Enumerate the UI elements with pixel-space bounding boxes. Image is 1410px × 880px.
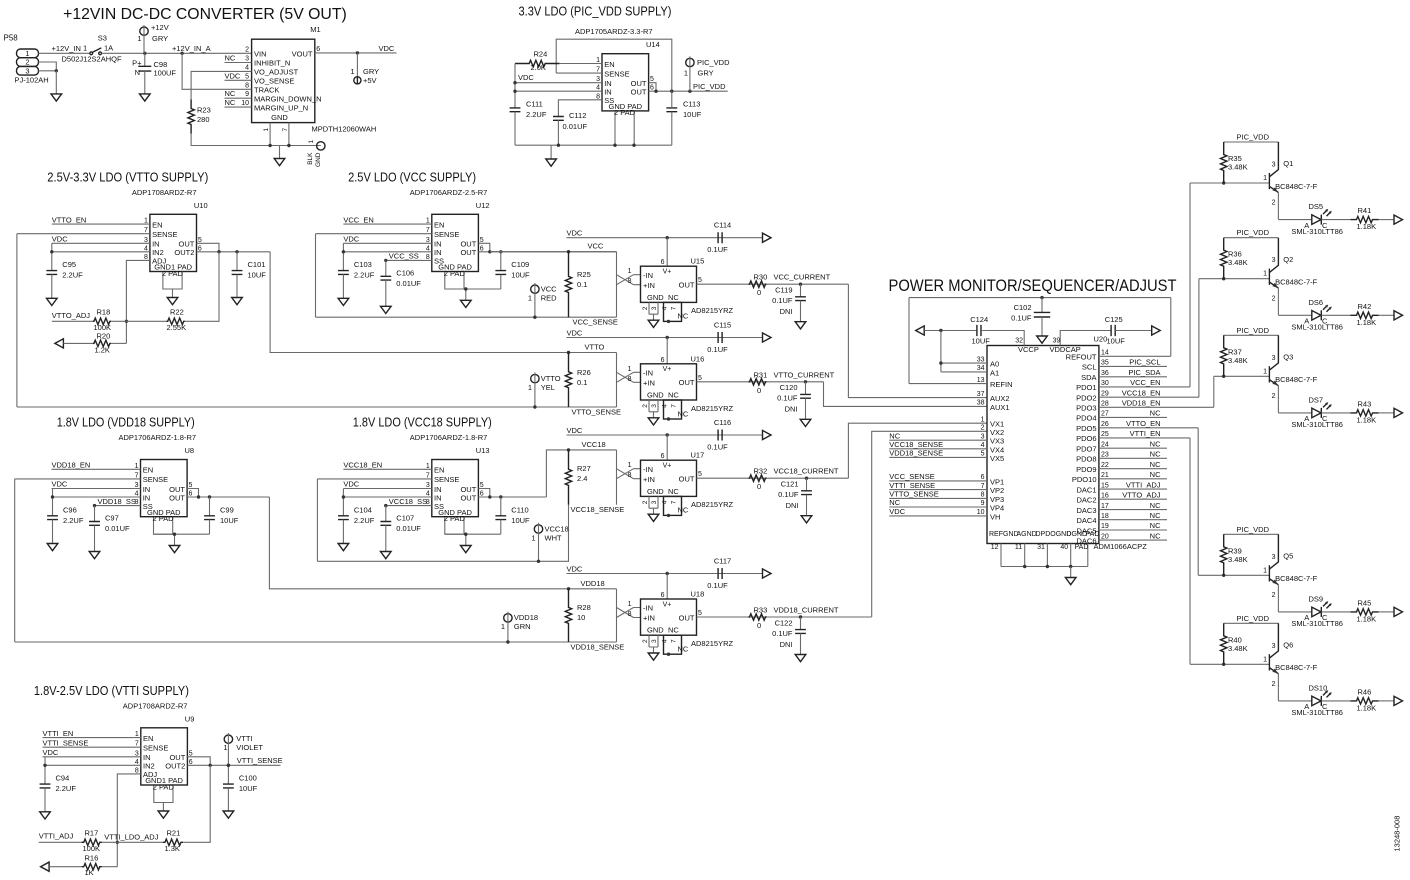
- svg-text:1.2K: 1.2K: [95, 345, 110, 354]
- wire gnd stub U15: [653, 314, 655, 320]
- wire OUT pin5 tie U12: [478, 243, 489, 252]
- junction R39 base Q5: [1222, 574, 1225, 577]
- svg-text:SENSE: SENSE: [434, 475, 459, 484]
- junction tie U12: [488, 250, 491, 253]
- svg-text:9: 9: [981, 500, 985, 507]
- LDO U9 (ADP1708ARDZ-R7) box: [141, 728, 188, 785]
- wire C124 to VCCP: [981, 331, 1024, 346]
- wire NC from PDO9: [1099, 468, 1167, 470]
- capacitor C95: [46, 271, 57, 275]
- svg-text:4: 4: [981, 442, 985, 449]
- wire V+ stub U18: [666, 574, 668, 600]
- svg-text:N: N: [135, 68, 140, 77]
- junction R27 top: [567, 448, 570, 451]
- wire VCC_SS: [386, 259, 432, 261]
- svg-text:P+: P+: [132, 58, 142, 67]
- wire R23 bottom to GND rail: [191, 134, 321, 146]
- ground C122: [795, 655, 806, 662]
- svg-text:4: 4: [662, 500, 669, 504]
- wire VTTO_ADJ to R18: [52, 320, 93, 322]
- svg-text:10UF: 10UF: [220, 516, 239, 525]
- junction +5V probe: [356, 51, 359, 54]
- wire U20 pin 12 stub: [1000, 544, 1002, 567]
- svg-text:PDO8: PDO8: [1076, 455, 1096, 464]
- off-page connector (VDC U17): [763, 430, 772, 439]
- resistor R20: [93, 340, 111, 346]
- wire OUT U15: [697, 283, 849, 285]
- svg-text:DNI: DNI: [780, 307, 793, 316]
- wire sense right edge U16: [616, 353, 618, 408]
- ground M1: [274, 159, 285, 166]
- svg-text:AD8215YRZ: AD8215YRZ: [691, 639, 734, 648]
- wire C120 drop: [805, 382, 807, 395]
- wire P58 pin3 to node: [39, 70, 57, 72]
- ground pad U8: [169, 546, 180, 553]
- svg-text:18: 18: [1101, 513, 1109, 520]
- svg-text:13: 13: [977, 377, 985, 384]
- wire VCC18 sense return rail: [317, 505, 568, 562]
- svg-text:VP1: VP1: [990, 477, 1004, 486]
- svg-text:ADM1066ACPZ: ADM1066ACPZ: [1094, 542, 1148, 551]
- junction P58 pins 2-3: [55, 69, 58, 72]
- wire C101 to ground: [236, 274, 238, 297]
- wire V+ stub U17: [666, 435, 668, 460]
- svg-text:10UF: 10UF: [1107, 337, 1126, 346]
- svg-text:6: 6: [316, 46, 320, 53]
- wire LED to R42: [1321, 314, 1350, 316]
- wire SENSE U14: [556, 72, 602, 74]
- off-page connector (Q1 output): [1394, 215, 1403, 224]
- junction R40 base Q6: [1222, 663, 1225, 666]
- LDO U10 (ADP1708ARDZ-R7) box: [150, 214, 197, 271]
- svg-text:VCC_EN: VCC_EN: [343, 215, 373, 224]
- wire M1 pin 10 stub: [225, 106, 252, 108]
- svg-text:R16: R16: [85, 853, 99, 862]
- svg-text:NC: NC: [678, 409, 689, 418]
- svg-text:15: 15: [1101, 482, 1109, 489]
- svg-text:R33: R33: [754, 606, 768, 615]
- ground C102: [1037, 336, 1048, 343]
- resistor R32: [749, 475, 767, 481]
- svg-text:C106: C106: [396, 268, 414, 277]
- svg-text:37: 37: [977, 391, 985, 398]
- wire VDD18_SENSE to VX5: [889, 456, 987, 458]
- junction R35 base Q1: [1222, 181, 1225, 184]
- svg-text:MARGIN_DOWN_N: MARGIN_DOWN_N: [254, 94, 322, 103]
- wire VDD18_EN from PDO3: [1099, 406, 1214, 408]
- capacitor C119 (DNI): [795, 297, 806, 301]
- svg-text:U9: U9: [185, 714, 195, 723]
- svg-text:R27: R27: [577, 464, 591, 473]
- wire gnd stub pad U13: [465, 534, 467, 545]
- svg-text:MARGIN_UP_N: MARGIN_UP_N: [254, 103, 308, 112]
- svg-text:AD8215YRZ: AD8215YRZ: [691, 404, 734, 413]
- svg-text:V+: V+: [663, 463, 672, 470]
- svg-text:EN: EN: [143, 466, 153, 475]
- svg-text:VCC18_EN: VCC18_EN: [343, 461, 382, 470]
- capacitor C124: [977, 325, 981, 336]
- svg-text:33: 33: [977, 356, 985, 363]
- svg-text:REFIN: REFIN: [990, 380, 1013, 389]
- wire VTTO_ADJ from DAC2: [1099, 498, 1167, 500]
- svg-text:0.01UF: 0.01UF: [396, 524, 421, 533]
- wire R43 to connector: [1379, 412, 1395, 414]
- wire IN2 U13: [343, 496, 431, 498]
- svg-text:VO_SENSE: VO_SENSE: [254, 77, 294, 86]
- svg-text:10UF: 10UF: [248, 271, 267, 280]
- svg-text:6: 6: [661, 453, 665, 460]
- bottom ground rail U14: [515, 144, 672, 146]
- wire PIC_VDD rail Q5: [1224, 533, 1279, 535]
- svg-text:U15: U15: [691, 257, 705, 266]
- svg-text:0.01UF: 0.01UF: [105, 524, 130, 533]
- svg-text:38: 38: [977, 400, 985, 407]
- junction gnd bus 11: [1023, 565, 1026, 568]
- svg-text:GND: GND: [647, 391, 664, 400]
- off-page connector (VTTI_ADJ R16): [41, 862, 50, 871]
- LDO U14 (ADP1705ARDZ-3.3-R7) box: [602, 54, 649, 111]
- wire NC from DAC3: [1099, 509, 1167, 511]
- junction NC U17: [667, 514, 670, 517]
- wire C100 drop: [227, 765, 229, 784]
- wire R41 to connector: [1379, 219, 1395, 221]
- wire C111 to rail: [514, 112, 516, 146]
- wire U20 PAD stub: [1087, 544, 1089, 567]
- svg-text:R42: R42: [1358, 302, 1372, 311]
- svg-text:C96: C96: [63, 505, 77, 514]
- wire U12 SENSE riser: [315, 234, 317, 318]
- svg-text:3: 3: [651, 306, 658, 310]
- wire IN2 U8: [53, 496, 141, 498]
- svg-text:4: 4: [245, 64, 249, 71]
- svg-text:PDO2: PDO2: [1076, 394, 1096, 403]
- wire emitter to LED DS7: [1278, 412, 1311, 414]
- wire VDC input U8: [52, 488, 141, 490]
- wire C104 to ground: [342, 520, 344, 544]
- svg-text:WHT: WHT: [545, 533, 562, 542]
- wire GND pins U18: [649, 635, 658, 647]
- resistor R31: [749, 379, 767, 385]
- svg-text:0.1UF: 0.1UF: [707, 345, 728, 354]
- junction A0/A1 riser: [939, 329, 942, 332]
- ground P58: [51, 94, 62, 101]
- svg-text:4: 4: [662, 404, 669, 408]
- svg-text:DS10: DS10: [1309, 683, 1328, 692]
- ground U17: [648, 514, 659, 521]
- svg-text:PAD: PAD: [1075, 544, 1089, 551]
- svg-text:OUT2: OUT2: [165, 762, 185, 771]
- svg-text:VDD18_SENSE: VDD18_SENSE: [889, 449, 943, 458]
- svg-text:VDD18_SENSE: VDD18_SENSE: [571, 643, 625, 652]
- svg-text:DNI: DNI: [786, 501, 799, 510]
- svg-text:32: 32: [1015, 338, 1023, 345]
- op-amp U18 (AD8215YRZ) box: [641, 599, 697, 635]
- wire output PIC_VDD: [649, 90, 728, 92]
- wire OUT U17: [697, 477, 849, 479]
- svg-text:VDD18_EN: VDD18_EN: [52, 461, 91, 470]
- wire A1: [941, 371, 987, 373]
- svg-text:3: 3: [245, 56, 249, 63]
- wire C106 drop: [385, 260, 387, 276]
- resistor R39: [1221, 534, 1227, 575]
- svg-text:3: 3: [651, 500, 658, 504]
- svg-text:1: 1: [501, 622, 505, 631]
- svg-text:0: 0: [757, 386, 761, 395]
- svg-text:DNI: DNI: [785, 405, 798, 414]
- op-amp U15 (AD8215YRZ) box: [641, 266, 697, 302]
- svg-text:1: 1: [1263, 567, 1267, 574]
- svg-text:VTTO: VTTO: [585, 343, 605, 352]
- svg-text:NC: NC: [1150, 450, 1161, 459]
- wire VTTI_ADJ to R17: [39, 841, 82, 843]
- wire VTTO_EN from PDO5: [1099, 427, 1198, 429]
- svg-text:6: 6: [981, 474, 985, 481]
- off-page connector (Q6 output): [1394, 696, 1403, 705]
- svg-text:VCC_SENSE: VCC_SENSE: [889, 472, 934, 481]
- svg-text:NC: NC: [668, 391, 679, 400]
- probe GND BLK: [317, 142, 325, 150]
- capacitor C117: [718, 568, 722, 579]
- svg-text:SML-310LTT86: SML-310LTT86: [1291, 619, 1343, 628]
- svg-text:Q3: Q3: [1283, 352, 1293, 361]
- capacitor C109: [495, 271, 506, 275]
- svg-text:VDC: VDC: [52, 235, 68, 244]
- capacitor C98: [138, 53, 151, 94]
- junction C112 gnd: [557, 144, 560, 147]
- capacitor C102: [1034, 298, 1050, 336]
- svg-text:VDC: VDC: [567, 328, 583, 337]
- svg-text:VDC: VDC: [379, 44, 395, 53]
- svg-text:R45: R45: [1358, 598, 1372, 607]
- svg-text:C100: C100: [239, 774, 257, 783]
- ground C100: [223, 811, 234, 818]
- capacitor C96: [47, 516, 58, 520]
- svg-text:R18: R18: [97, 307, 111, 316]
- svg-text:INHIBIT_N: INHIBIT_N: [254, 59, 290, 68]
- capacitor C121 (DNI): [801, 491, 812, 495]
- svg-text:C114: C114: [714, 221, 731, 230]
- wire C112 to rail: [557, 120, 559, 145]
- pad pins of U10: [163, 272, 182, 290]
- svg-text:1.3K: 1.3K: [165, 844, 180, 853]
- wire U20 pin 11 stub: [1024, 544, 1026, 567]
- svg-text:VCC18_CURRENT: VCC18_CURRENT: [774, 467, 839, 476]
- svg-text:VCC_SS: VCC_SS: [389, 252, 419, 261]
- wire C99 to pad bar: [209, 520, 211, 535]
- svg-text:2: 2: [1272, 681, 1276, 688]
- junction ADJ network U10: [125, 320, 128, 323]
- svg-text:7: 7: [282, 128, 289, 132]
- ground U18: [648, 653, 659, 660]
- svg-text:0.1: 0.1: [577, 280, 587, 289]
- wire PIC_SCL from SCL: [1099, 365, 1167, 367]
- probe VCC RED: [531, 283, 539, 317]
- svg-text:R25: R25: [577, 270, 591, 279]
- NC pins box U18: [664, 635, 682, 654]
- wire C100 to ground: [227, 788, 229, 811]
- svg-text:1.8V-2.5V LDO (VTTI SUPPLY): 1.8V-2.5V LDO (VTTI SUPPLY): [34, 684, 189, 698]
- svg-text:PDO9: PDO9: [1076, 465, 1096, 474]
- svg-text:PDO4: PDO4: [1076, 414, 1096, 423]
- wire emitter to LED DS5: [1278, 219, 1311, 221]
- wire C121 drop: [806, 478, 808, 491]
- svg-text:VTTO_EN: VTTO_EN: [52, 215, 86, 224]
- svg-text:NC: NC: [1150, 531, 1161, 540]
- capacitor C110: [495, 516, 506, 520]
- svg-text:C99: C99: [220, 505, 234, 514]
- svg-text:OUT: OUT: [460, 493, 476, 502]
- svg-text:R32: R32: [754, 467, 768, 476]
- resistor R46: [1351, 698, 1379, 704]
- wire U20 pin 31 stub: [1046, 544, 1048, 567]
- wire arrow to R16: [49, 866, 82, 868]
- svg-text:R28: R28: [577, 603, 591, 612]
- wire gnd stub U17: [653, 508, 655, 514]
- wire VTTO_SENSE to VP3: [889, 497, 987, 499]
- svg-text:3.48K: 3.48K: [1228, 356, 1248, 365]
- svg-text:C112: C112: [569, 111, 586, 120]
- wire LED to R41: [1321, 219, 1350, 221]
- wire NC from PDO10: [1099, 478, 1167, 480]
- svg-text:NC: NC: [678, 645, 689, 654]
- svg-text:16: 16: [1101, 492, 1109, 499]
- svg-text:2.2UF: 2.2UF: [354, 271, 375, 280]
- wire right loop vertical: [1170, 298, 1172, 357]
- wire PIC_VDD rail Q3: [1224, 334, 1279, 336]
- junction tie U9: [209, 764, 212, 767]
- svg-text:0.1: 0.1: [577, 378, 587, 387]
- svg-text:PIC_SCL: PIC_SCL: [1129, 358, 1160, 367]
- svg-text:VTTO_ADJ: VTTO_ADJ: [52, 311, 90, 320]
- ground C103: [338, 298, 349, 305]
- svg-text:DAC4: DAC4: [1076, 516, 1096, 525]
- svg-text:R24: R24: [534, 50, 548, 59]
- junction C102 tap: [1040, 296, 1043, 299]
- wire EN riser to Q5: [1197, 428, 1199, 576]
- junction C107 tap: [384, 504, 387, 507]
- capacitor C107: [380, 522, 391, 526]
- svg-text:VCC18_SS: VCC18_SS: [389, 497, 427, 506]
- capacitor C111: [510, 108, 521, 112]
- wire OUT pin5 tie U9: [187, 757, 210, 766]
- junction C100 tap: [227, 764, 230, 767]
- svg-text:SML-310LTT86: SML-310LTT86: [1291, 420, 1343, 429]
- wire IN2 U12: [343, 251, 431, 253]
- wire base Q5: [1198, 574, 1269, 576]
- svg-text:C121: C121: [781, 480, 799, 489]
- wire VDC rail U17: [567, 434, 763, 436]
- svg-text:OUT: OUT: [169, 493, 185, 502]
- wire U8 output riser to R28: [269, 497, 568, 589]
- svg-text:VCC_CURRENT: VCC_CURRENT: [774, 273, 831, 282]
- wire arrow to R20: [63, 342, 92, 344]
- svg-text:U8: U8: [185, 446, 195, 455]
- wire VCC_EN: [343, 223, 431, 225]
- svg-text:1: 1: [628, 268, 632, 275]
- svg-text:POWER MONITOR/SEQUENCER/ADJUST: POWER MONITOR/SEQUENCER/ADJUST: [889, 277, 1177, 295]
- svg-text:0.1UF: 0.1UF: [707, 581, 728, 590]
- wire NC from DAC6: [1099, 539, 1167, 541]
- svg-text:21: 21: [1101, 472, 1109, 479]
- svg-text:0.1UF: 0.1UF: [707, 245, 728, 254]
- wire C107 to ground: [385, 525, 387, 551]
- svg-text:VDD18: VDD18: [514, 613, 538, 622]
- wire SENSE U13 to remote sense: [317, 478, 431, 480]
- wire VCC_SENSE to VP1: [889, 480, 987, 482]
- svg-text:10UF: 10UF: [511, 516, 530, 525]
- svg-text:+12VIN DC-DC CONVERTER (5V OUT: +12VIN DC-DC CONVERTER (5V OUT): [63, 6, 347, 23]
- LDO U12 (ADP1706ARDZ-2.5-R7) box: [432, 214, 479, 271]
- ground pad U9: [158, 811, 169, 818]
- wire output net U13: [478, 496, 546, 498]
- capacitor C113: [666, 108, 677, 112]
- svg-text:R43: R43: [1358, 399, 1372, 408]
- svg-text:VOUT: VOUT: [292, 50, 313, 59]
- svg-text:0: 0: [757, 288, 761, 297]
- svg-text:VTTO_ADJ: VTTO_ADJ: [1122, 490, 1160, 499]
- resistor R42: [1351, 312, 1379, 318]
- wire left loop vertical: [908, 298, 910, 384]
- wire PIC_VDD rail Q6: [1224, 622, 1279, 624]
- svg-text:PDO5: PDO5: [1076, 424, 1096, 433]
- wire U20 ground bus: [1001, 566, 1088, 568]
- svg-text:VDC: VDC: [43, 748, 59, 757]
- svg-text:PDO7: PDO7: [1076, 445, 1096, 454]
- svg-text:22: 22: [1101, 462, 1109, 469]
- ground C97: [89, 552, 100, 559]
- svg-text:0.1UF: 0.1UF: [707, 443, 728, 452]
- wire gnd stub pad U12: [465, 289, 467, 300]
- wire NC from PDO7: [1099, 447, 1167, 449]
- svg-text:NC: NC: [225, 89, 236, 98]
- resistor R43: [1351, 410, 1379, 416]
- svg-text:SCL: SCL: [1082, 363, 1097, 372]
- junction C122 tap: [799, 615, 802, 618]
- svg-text:C117: C117: [714, 557, 731, 566]
- svg-text:34: 34: [977, 365, 985, 372]
- svg-text:VDC: VDC: [343, 235, 359, 244]
- svg-text:R26: R26: [577, 368, 591, 377]
- svg-text:SML-310LTT86: SML-310LTT86: [1291, 227, 1343, 236]
- ground pad U10: [167, 298, 178, 305]
- LED DS10 (SML-310LTT86): [1312, 690, 1332, 706]
- wire VCC18_SENSE to VX4: [889, 448, 987, 450]
- junction gnd bus 31: [1046, 565, 1049, 568]
- svg-text:4: 4: [662, 639, 669, 643]
- svg-text:VDC: VDC: [518, 73, 534, 82]
- svg-text:DS5: DS5: [1309, 202, 1324, 211]
- svg-text:9: 9: [245, 91, 249, 98]
- svg-text:DS7: DS7: [1309, 395, 1324, 404]
- wire V+ stub U16: [666, 338, 668, 364]
- pad pins of U9: [154, 785, 173, 803]
- svg-text:0.01UF: 0.01UF: [396, 279, 421, 288]
- svg-text:VP4: VP4: [990, 504, 1004, 513]
- off-page connector (VCCP): [916, 326, 925, 335]
- svg-text:C110: C110: [511, 505, 528, 514]
- svg-text:A0: A0: [990, 360, 999, 369]
- svg-text:1: 1: [223, 743, 227, 752]
- wire NC from DAC5: [1099, 529, 1167, 531]
- wire M1 pin 3 stub: [225, 62, 252, 64]
- svg-text:VDC: VDC: [889, 507, 905, 516]
- wire VDD18 sense bottom rail: [15, 641, 617, 643]
- svg-text:29: 29: [1101, 390, 1109, 397]
- svg-text:PIC_VDD: PIC_VDD: [693, 82, 726, 91]
- svg-text:BC848C-7-F: BC848C-7-F: [1275, 574, 1318, 583]
- svg-text:V+: V+: [663, 366, 672, 373]
- svg-text:R20: R20: [97, 331, 111, 340]
